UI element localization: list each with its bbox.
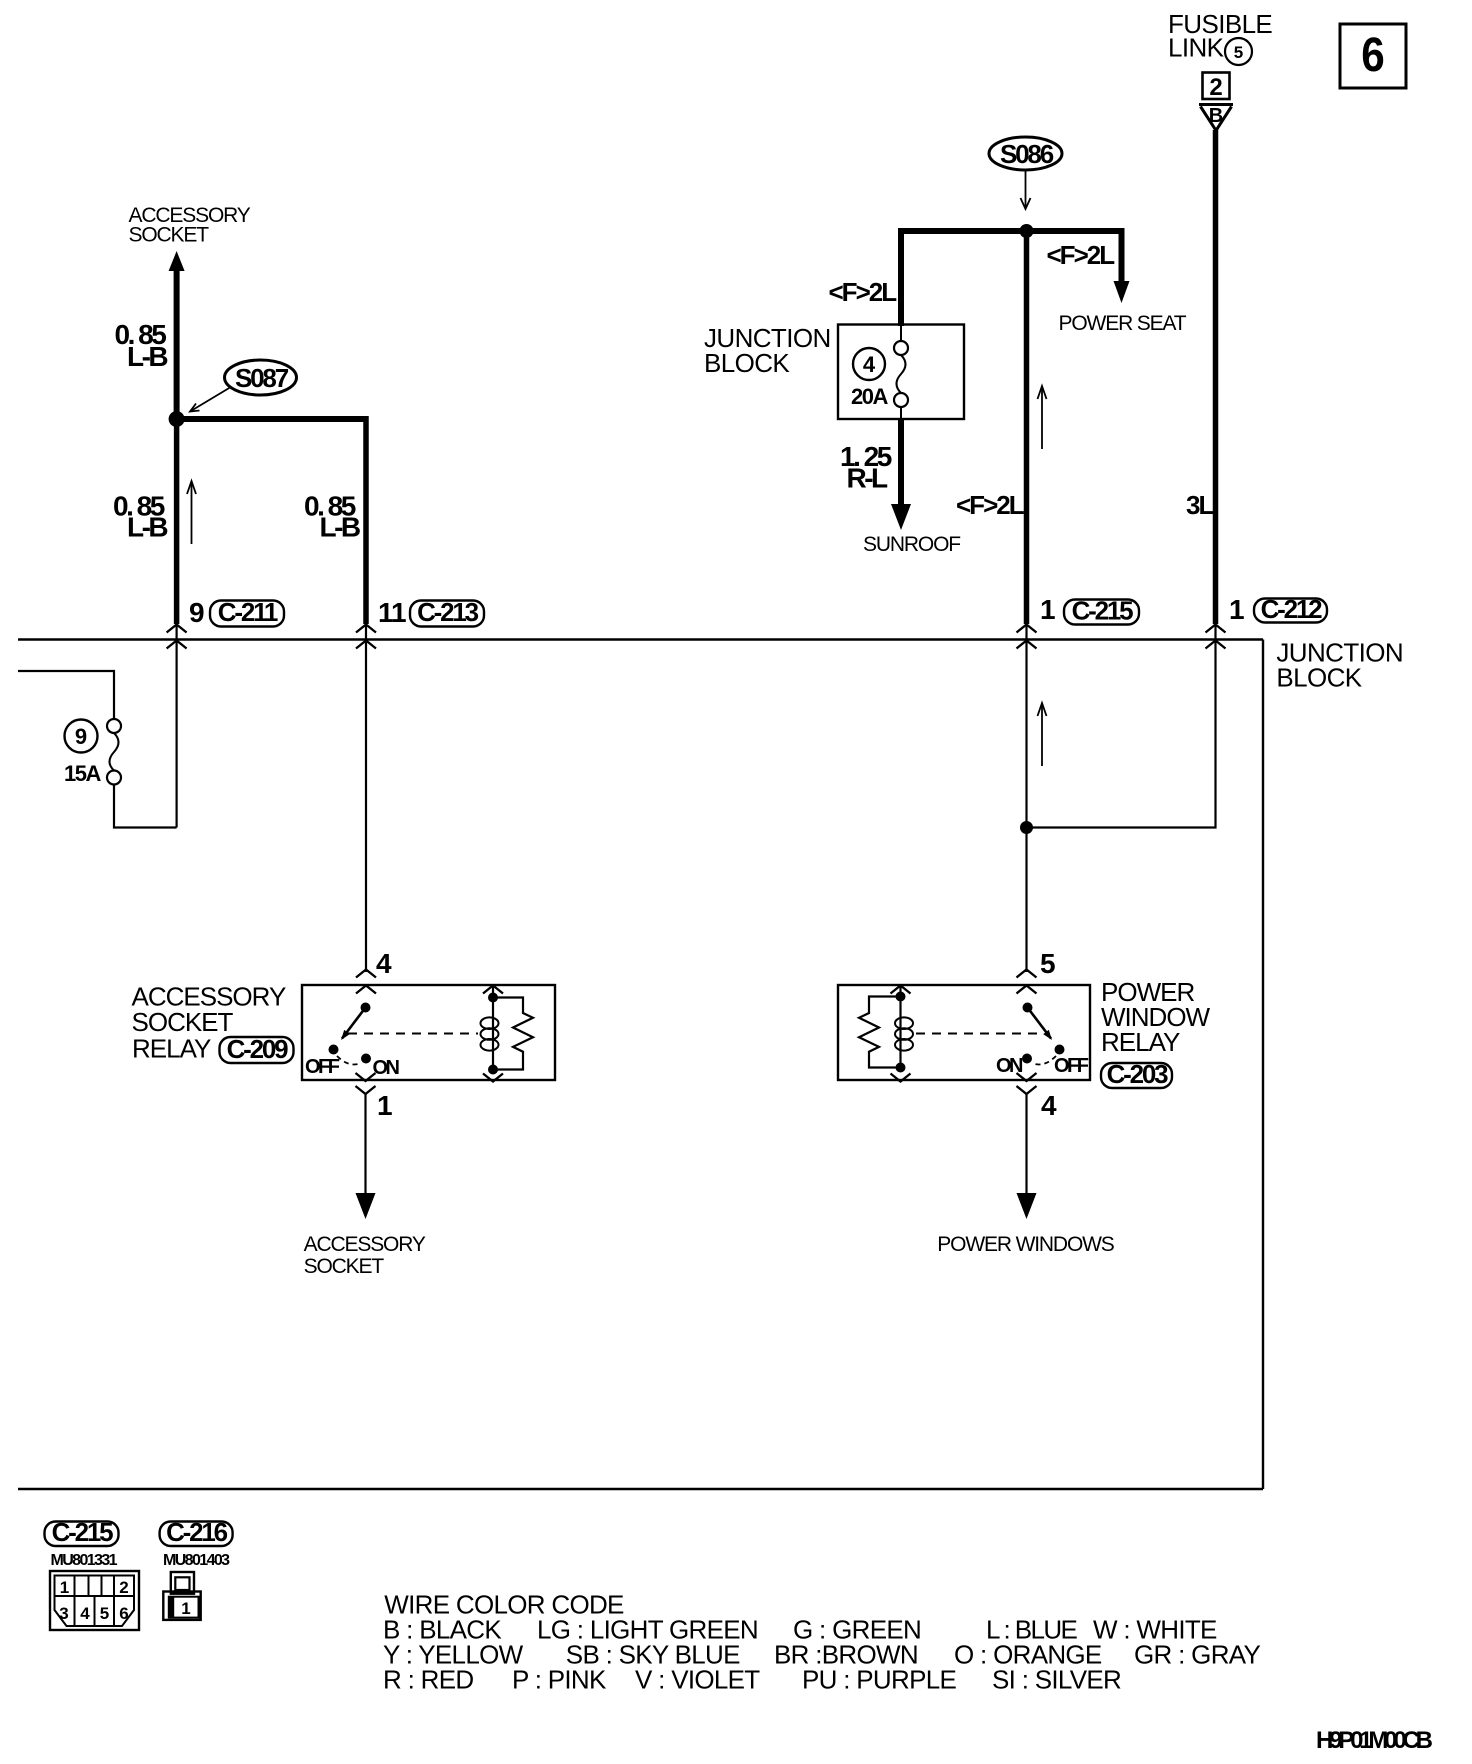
svg-text:OFF: OFF <box>305 1056 340 1078</box>
svg-text:RELAY: RELAY <box>132 1033 211 1063</box>
connector C-215 pinout drawing <box>50 1571 139 1630</box>
svg-text:C-216: C-216 <box>166 1517 228 1547</box>
node junction dot on relay feed <box>1020 821 1033 834</box>
fusible link 5 label <box>1168 9 1272 65</box>
svg-text:3: 3 <box>59 1604 68 1623</box>
svg-text:<F>2L: <F>2L <box>829 277 898 307</box>
svg-text:C-211: C-211 <box>218 597 278 627</box>
svg-text:BLOCK: BLOCK <box>1276 662 1362 692</box>
pin 1 chevrons (relay U1 bottom) <box>356 1073 376 1094</box>
fuse 4 symbol <box>894 326 908 419</box>
coil pin chevron bottom (U1) <box>483 1074 503 1082</box>
svg-text:SUNROOF: SUNROOF <box>863 533 960 556</box>
ON contact dot (U2) <box>1022 1054 1032 1064</box>
connector C-216 (bottom legend) <box>160 1517 233 1547</box>
wire inside block from C-211 pin down <box>176 626 178 828</box>
switch common dot (U1) <box>361 1003 371 1013</box>
connector C-211 <box>210 597 284 627</box>
svg-text:1: 1 <box>181 1599 190 1618</box>
wire S087 horizontal to C-213 branch <box>177 416 366 422</box>
svg-text:BLOCK: BLOCK <box>704 348 790 378</box>
splice S086 oval <box>989 137 1062 170</box>
connector C-209 <box>220 1034 294 1064</box>
node B (triangle off-page connector) <box>1199 105 1233 131</box>
svg-text:R-L: R-L <box>847 463 889 494</box>
svg-text:C-213: C-213 <box>417 597 479 627</box>
wire C-213 pin down to relay pin 4 <box>365 626 367 972</box>
svg-text:11: 11 <box>378 597 406 628</box>
switch common dot (U2) <box>1023 1003 1033 1013</box>
svg-text:POWER SEAT: POWER SEAT <box>1059 312 1187 335</box>
ON contact dot (U1) <box>361 1054 371 1064</box>
svg-text:OFF: OFF <box>1054 1055 1089 1077</box>
junction block fuse box <box>838 325 964 420</box>
connector C-216 pinout drawing <box>163 1572 200 1620</box>
svg-text:4: 4 <box>80 1604 90 1623</box>
wire fuse 9 to C-211 line <box>114 785 177 828</box>
wire C-212 pin down and across to relay line <box>1027 626 1216 828</box>
connector C-203 <box>1101 1059 1172 1089</box>
dashed throw arc (U1) <box>337 1056 361 1064</box>
svg-text:SI : SILVER: SI : SILVER <box>992 1664 1121 1694</box>
svg-text:LINK: LINK <box>1168 33 1225 63</box>
svg-text:C-215: C-215 <box>52 1517 114 1547</box>
svg-text:C-215: C-215 <box>1072 596 1134 626</box>
pin 4 chevrons (relay U1 top) <box>356 970 376 994</box>
wire S086 horizontal bus <box>899 228 1123 234</box>
fuse 9 symbol <box>107 719 121 785</box>
connector C-212 <box>1254 594 1327 624</box>
svg-text:3L: 3L <box>1186 490 1214 520</box>
svg-text:<F>2L: <F>2L <box>956 490 1025 520</box>
direction arrow (up) beside 0.85 L-B wire <box>187 481 196 544</box>
dashed actuation line (U1) <box>348 1033 478 1035</box>
svg-text:20A: 20A <box>851 384 888 409</box>
node S086 junction dot <box>1020 224 1034 238</box>
leader arrow from S086 down to node <box>1021 171 1031 209</box>
connector chevrons C-215 crossing <box>1017 625 1037 649</box>
svg-text:1: 1 <box>1040 594 1055 625</box>
relay coil (U2) <box>895 986 913 1073</box>
fusible link page-ref box 2 <box>1203 73 1230 102</box>
coil suppression resistor (U2) <box>859 997 901 1068</box>
svg-text:P : PINK: P : PINK <box>512 1664 607 1694</box>
wire S087 down to C-211 pin 9 <box>174 419 180 624</box>
label 0.85 L-B (lower right) <box>304 491 360 543</box>
connector chevrons C-212 crossing <box>1206 625 1226 649</box>
svg-text:L-B: L-B <box>127 512 167 543</box>
connector C-213 <box>410 597 484 627</box>
svg-text:L-B: L-B <box>320 512 360 543</box>
OFF contact dot (U1) <box>329 1045 339 1055</box>
connector chevrons C-213 crossing <box>356 625 376 649</box>
svg-text:4: 4 <box>1041 1090 1057 1121</box>
switch blade with arrowhead (U1) <box>341 1008 366 1041</box>
label JUNCTION BLOCK (fuse 4) <box>704 323 831 378</box>
label 1.25 R-L <box>840 441 892 494</box>
svg-text:5: 5 <box>1040 948 1055 979</box>
switch blade with arrowhead (U2) <box>1028 1008 1053 1041</box>
pin 5 chevrons (relay U2 top) <box>1017 970 1037 994</box>
svg-text:B: B <box>1209 105 1223 127</box>
connector C-215 (bottom legend) <box>45 1517 119 1547</box>
leader arrow from S087 to node <box>190 388 230 412</box>
connector chevrons C-211 crossing <box>167 625 187 649</box>
svg-text:4: 4 <box>863 352 876 377</box>
dashed actuation line (U2) <box>916 1033 1043 1035</box>
wire relay U1 pin 1 down with arrow to accessory socket <box>356 1094 376 1219</box>
dashed throw arc (U2) <box>1032 1056 1056 1064</box>
svg-text:V : VIOLET: V : VIOLET <box>635 1664 760 1694</box>
junction block bottom border <box>18 1488 1263 1490</box>
svg-text:1: 1 <box>60 1578 69 1597</box>
wire C-215 pin down to relay pin 5 <box>1025 626 1027 972</box>
legend line 3 <box>383 1664 1121 1694</box>
arrow up to accessory socket <box>169 251 185 419</box>
svg-text:ON: ON <box>373 1057 400 1079</box>
svg-text:L-B: L-B <box>127 341 167 372</box>
direction arrow (up) inside junction block <box>1038 703 1047 766</box>
junction block right border <box>1262 640 1264 1490</box>
svg-text:RELAY: RELAY <box>1101 1027 1180 1057</box>
C-215 pin numbers <box>59 1578 128 1623</box>
svg-text:C-209: C-209 <box>227 1034 289 1064</box>
svg-text:<F>2L: <F>2L <box>1047 240 1116 270</box>
svg-text:MU801331: MU801331 <box>51 1552 118 1569</box>
relay coil (U1) <box>481 986 499 1075</box>
wire fusible link B down to C-212 (3L) <box>1213 130 1219 624</box>
wire sunroof with arrow <box>891 419 911 530</box>
relay U2: power window relay box <box>838 985 1090 1080</box>
wire power seat branch with arrow <box>1114 228 1130 303</box>
wire left branch down to fuse 4 <box>898 228 904 326</box>
svg-text:C-212: C-212 <box>1261 594 1323 624</box>
label 0.85 L-B (lower left) <box>113 491 167 543</box>
svg-text:C-203: C-203 <box>1107 1059 1169 1089</box>
wire relay U2 pin 4 down with arrow to power windows <box>1017 1094 1037 1219</box>
svg-text:15A: 15A <box>64 761 101 786</box>
legend line 2 <box>383 1639 1260 1669</box>
legend line 1 <box>383 1614 1217 1644</box>
label JUNCTION BLOCK (right) <box>1276 638 1403 693</box>
coil pin chevron top (U1) <box>483 986 503 994</box>
svg-text:1: 1 <box>1229 594 1244 625</box>
junction block top border <box>18 638 1263 640</box>
wire branch down to C-213 pin 11 <box>363 416 369 624</box>
svg-text:4: 4 <box>376 948 392 979</box>
svg-text:9: 9 <box>189 597 204 628</box>
svg-text:SOCKET: SOCKET <box>304 1255 385 1278</box>
svg-text:PU : PURPLE: PU : PURPLE <box>802 1664 956 1694</box>
svg-text:9: 9 <box>75 724 87 749</box>
svg-text:R : RED: R : RED <box>383 1664 473 1694</box>
page number box 6 <box>1340 24 1406 88</box>
label ACCESSORY SOCKET RELAY <box>132 982 286 1064</box>
svg-text:5: 5 <box>1234 43 1243 62</box>
svg-text:2: 2 <box>1209 74 1222 101</box>
svg-text:5: 5 <box>100 1604 109 1623</box>
svg-text:1: 1 <box>377 1090 392 1121</box>
splice S087 oval <box>225 360 297 395</box>
fuse number 4 circled <box>853 348 885 380</box>
svg-text:ACCESSORY: ACCESSORY <box>304 1233 426 1256</box>
connector C-215 <box>1064 596 1139 626</box>
relay U1: accessory socket relay box <box>302 985 555 1080</box>
coil pin chevron bottom (U2) <box>891 1074 911 1082</box>
OFF contact dot (U2) <box>1055 1045 1065 1055</box>
direction arrow (up) beside F2L wire <box>1038 386 1047 449</box>
label 0.85 L-B (upper) <box>115 319 168 372</box>
svg-text:H9P01M00CB: H9P01M00CB <box>1316 1727 1433 1754</box>
svg-text:2: 2 <box>119 1578 128 1597</box>
svg-text:GR : GRAY: GR : GRAY <box>1134 1639 1260 1669</box>
label POWER WINDOW RELAY <box>1101 977 1211 1057</box>
wire internal bus to fuse 9 <box>18 671 114 719</box>
node S087 junction dot <box>169 411 185 427</box>
svg-text:6: 6 <box>1361 27 1384 81</box>
svg-text:6: 6 <box>119 1604 128 1623</box>
svg-text:S086: S086 <box>1000 139 1054 169</box>
pin 4 chevrons (relay U2 bottom) <box>1017 1073 1037 1094</box>
svg-text:S087: S087 <box>235 363 289 393</box>
label ACCESSORY SOCKET (bottom) <box>304 1233 426 1278</box>
coil pin chevron top (U2) <box>891 986 911 994</box>
svg-text:POWER WINDOWS: POWER WINDOWS <box>937 1233 1115 1256</box>
coil suppression resistor (U1) <box>493 998 533 1070</box>
wire S086 node down to C-215 pin 1 <box>1024 231 1030 624</box>
svg-text:SOCKET: SOCKET <box>129 224 210 247</box>
svg-text:MU801403: MU801403 <box>163 1552 230 1569</box>
label ACCESSORY SOCKET (top feed) <box>129 204 251 247</box>
fuse number 9 circled <box>65 720 98 753</box>
